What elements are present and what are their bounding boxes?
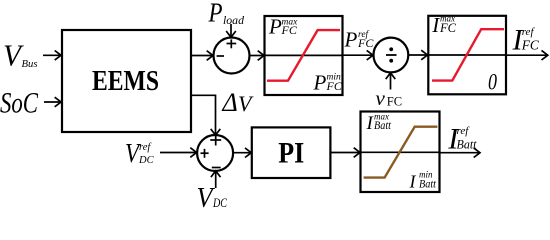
label deltaV xyxy=(222,88,255,117)
saturation block: FC current limit xyxy=(428,13,506,95)
label V_DC xyxy=(197,182,228,214)
label I_Batt^ref xyxy=(447,122,477,155)
svg-text:DC: DC xyxy=(138,155,155,166)
svg-text:P: P xyxy=(313,71,327,95)
label V_DC^ref xyxy=(125,138,155,168)
svg-text:load: load xyxy=(223,15,244,27)
svg-text:SoC: SoC xyxy=(0,87,39,120)
label V_Bus xyxy=(3,38,38,73)
saturation block: FC power limits xyxy=(265,14,343,95)
wire: EEMS to deltaV down into S2 xyxy=(191,95,220,135)
wire: FC power saturation to divider xyxy=(343,50,374,60)
svg-text:Batt: Batt xyxy=(374,120,392,132)
svg-text:ref: ref xyxy=(522,26,536,38)
svg-text:Bus: Bus xyxy=(22,59,38,70)
label I_FC^ref xyxy=(512,24,540,57)
summing junction S1 xyxy=(214,38,250,74)
label v_FC xyxy=(376,86,403,110)
svg-text:EEMS: EEMS xyxy=(92,65,159,97)
divider block xyxy=(374,38,409,73)
block PI xyxy=(252,127,331,178)
svg-text:FC: FC xyxy=(521,37,540,52)
svg-text:0: 0 xyxy=(488,69,497,95)
wire: EEMS to summing junction S1 xyxy=(191,51,213,61)
svg-text:P: P xyxy=(344,27,358,51)
svg-text:I: I xyxy=(409,171,417,191)
svg-text:P: P xyxy=(268,14,282,38)
wire: V_Bus input arrow xyxy=(43,51,61,61)
block EEMS xyxy=(62,30,191,132)
label P_load xyxy=(208,0,245,28)
wire: SoC input arrow xyxy=(44,97,61,107)
svg-text:ref: ref xyxy=(139,142,152,153)
svg-text:v: v xyxy=(376,86,386,110)
svg-text:Batt: Batt xyxy=(457,136,477,151)
wire: S1 to FC power saturation xyxy=(250,51,265,61)
summing junction S2 xyxy=(197,135,233,171)
svg-text:DC: DC xyxy=(212,195,227,210)
saturation block: battery current limits xyxy=(361,111,440,192)
wire: divider to FC current saturation xyxy=(408,50,427,60)
wire: output I_Batt^ref arrow xyxy=(440,148,481,158)
svg-text:PI: PI xyxy=(278,137,304,170)
svg-text:FC: FC xyxy=(326,79,343,93)
svg-text:Δ: Δ xyxy=(222,88,238,117)
wire: P_load arrow into S1 xyxy=(226,24,236,37)
wire: v_FC arrow into divider xyxy=(386,73,396,90)
svg-text:Batt: Batt xyxy=(419,179,437,191)
svg-text:FC: FC xyxy=(387,94,402,108)
svg-text:FC: FC xyxy=(439,21,457,35)
svg-text:V: V xyxy=(238,91,254,116)
svg-text:FC: FC xyxy=(357,36,374,50)
label P_FC^ref xyxy=(344,27,375,51)
wire: V_DC arrow into S2 xyxy=(211,171,221,188)
wire: S2 to PI xyxy=(233,148,251,158)
svg-text:I: I xyxy=(431,13,440,37)
wire: PI to battery saturation xyxy=(330,148,360,158)
wire: output I_FC^ref arrow xyxy=(506,50,548,60)
svg-text:ref: ref xyxy=(457,125,471,137)
wire: V_DC^ref arrow into S2 xyxy=(160,148,197,158)
svg-text:FC: FC xyxy=(281,23,298,37)
svg-text:P: P xyxy=(208,0,223,28)
